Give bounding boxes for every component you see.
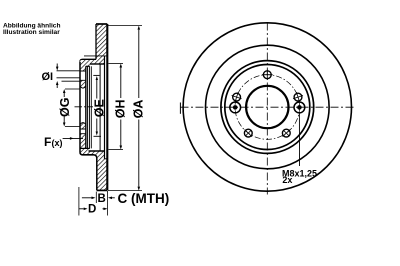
outer circle <box>183 23 351 191</box>
bolt hole lower-right <box>282 129 290 137</box>
svg-text:F: F <box>44 135 51 149</box>
threaded hole M8 right <box>294 102 305 113</box>
flange right face line <box>85 66 87 148</box>
dimension ØI <box>42 64 81 89</box>
bolt hole lower-left <box>244 129 252 137</box>
hat step circle <box>225 65 310 150</box>
dimension D <box>79 204 108 216</box>
svg-text:(x): (x) <box>52 138 63 148</box>
ring inner step line <box>104 56 106 159</box>
friction surface right edge <box>106 24 108 190</box>
svg-text:B: B <box>98 193 106 205</box>
inner bore line <box>99 64 101 151</box>
bolt pitch circle (dash-dot) <box>235 75 300 140</box>
center bore circle <box>246 86 288 128</box>
lower hole edges <box>80 129 86 134</box>
ØE feature edge top <box>93 74 99 76</box>
dimension ØA <box>108 26 146 191</box>
svg-text:ØH: ØH <box>114 99 128 118</box>
friction band inner circle <box>205 45 329 169</box>
bolt hole upper-left <box>232 92 242 102</box>
bolt hole ØI edges <box>80 71 86 80</box>
dimension ØH <box>108 64 127 150</box>
bolt hole upper-right <box>293 92 303 102</box>
svg-text:ØE: ØE <box>93 99 107 117</box>
friction ring top section + hat top brim (hatched) <box>80 24 107 66</box>
threaded hole M8 left <box>230 102 241 113</box>
svg-text:2x: 2x <box>282 175 292 185</box>
svg-text:ØI: ØI <box>42 71 54 83</box>
dimension ØE <box>93 76 107 136</box>
vertical centerline <box>266 23 268 195</box>
section centerline <box>75 106 94 108</box>
mounting flange strip with holes (hatched) <box>80 60 86 152</box>
svg-text:Illustration similar: Illustration similar <box>3 29 60 36</box>
centerline start tick <box>179 103 181 114</box>
friction ring bottom section + hat bottom brim (hatched) <box>80 134 107 191</box>
bolt hole top <box>262 70 273 81</box>
svg-text:C (MTH): C (MTH) <box>118 191 170 206</box>
leader line to M8 hole <box>298 113 300 166</box>
hat outer circle <box>221 61 314 154</box>
dimension B with C (MTH) <box>82 191 169 206</box>
ØE feature edge bottom <box>94 135 102 137</box>
svg-text:D: D <box>88 204 96 216</box>
bottom extension lines <box>78 187 80 216</box>
flange left face line <box>79 62 81 153</box>
horizontal centerline <box>181 106 355 108</box>
svg-text:ØA: ØA <box>132 100 146 119</box>
label F(x) with leader arrow <box>44 135 83 149</box>
hat cylinder wall lines <box>86 66 88 148</box>
dimension ØG <box>58 89 80 127</box>
svg-text:ØG: ØG <box>58 98 72 117</box>
